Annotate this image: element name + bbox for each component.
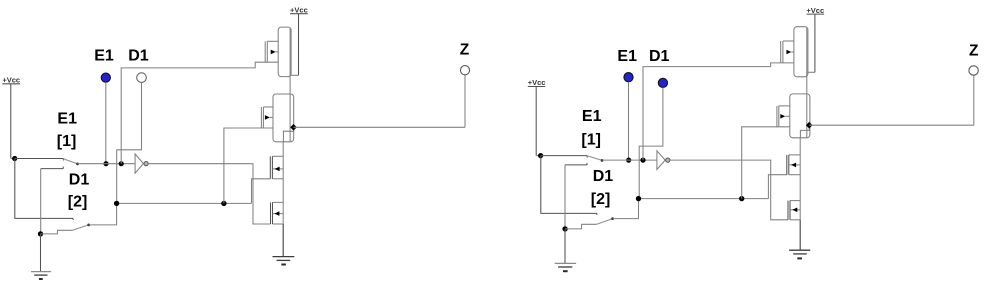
switch D1 [2] blade (right) — [597, 219, 613, 225]
wire loop from row up and over to T1 gate (right) — [643, 63, 794, 160]
switch D1 [2] pivot lead polyline — [41, 230, 73, 234]
wire switch D1 right contact to D1 net — [89, 203, 117, 225]
input probe E1 (blue) — [101, 73, 110, 82]
wire probe D1 down with jog to D1 row (right) — [639, 88, 663, 199]
transistor T8 (lower pair bottom, right) — [790, 200, 800, 202]
transistor T1 gate bars — [264, 41, 266, 62]
switch E1 [1] unused lower throw stub — [41, 168, 64, 170]
input probe E1 (blue, right) — [624, 73, 633, 82]
svg-text:E1: E1 — [57, 111, 77, 128]
wire inverter output to gate bus (right) — [670, 160, 788, 220]
transistor T4 source/bulk lead with arrow — [273, 213, 284, 215]
transistor T8 source/bulk lead with arrow — [790, 209, 800, 211]
wire D1 row (switch contact to bus) — [117, 202, 252, 204]
node Vcc-rail junction dot (right) — [538, 153, 543, 158]
wire inverter output to gate bus — [148, 164, 270, 224]
transistor T7 (lower pair top, right) — [789, 154, 800, 156]
wire +Vcc tee into T1 — [290, 74, 298, 76]
svg-text:[1]: [1] — [57, 133, 77, 150]
svg-text:D1: D1 — [593, 168, 614, 185]
wire +Vcc tee into T5 — [807, 71, 815, 73]
transistor T5 bulk arrow — [786, 50, 791, 55]
wire output row to Z terminal — [294, 126, 466, 128]
node D1 row left junction dot (right) — [636, 196, 641, 201]
transistor T1 bulk arrow — [271, 50, 276, 55]
node output junction diamond (right) — [806, 122, 813, 129]
transistor T1 drain stub — [267, 40, 278, 42]
svg-text:+Vcc: +Vcc — [528, 78, 546, 87]
wire E1 row (switch to inverter input) — [78, 163, 136, 165]
svg-text:+Vcc: +Vcc — [2, 75, 20, 84]
node D1 row right junction dot (right) — [739, 196, 744, 201]
transistor T6 source pin step box — [800, 130, 806, 137]
node ground-side junction dot (right) — [562, 226, 567, 231]
transistor T5 (top, body box, right) — [794, 27, 808, 77]
wire E1 row switch to inverter (right) — [602, 159, 657, 161]
node D1 row right junction dot — [221, 201, 226, 206]
svg-text:[2]: [2] — [68, 194, 88, 211]
svg-text:D1: D1 — [128, 48, 149, 65]
left circuit: tri-state buffer cell — [0, 0, 1, 1]
ground symbol (below transistor stack, left circuit) — [282, 224, 284, 257]
transistor T6 bulk arrow — [780, 114, 785, 119]
inverter U1 — [135, 154, 143, 173]
svg-text:+Vcc: +Vcc — [290, 5, 308, 14]
transistor T6 (middle, body box, right) — [790, 94, 810, 138]
switch D1 [2] pivot lead polyline (right) — [565, 224, 597, 229]
svg-text:+Vcc: +Vcc — [806, 6, 824, 15]
wire probe E1 down to row — [105, 82, 107, 164]
transistor T2 gate bars — [260, 107, 262, 128]
node output junction diamond — [290, 124, 297, 131]
svg-text:[1]: [1] — [581, 131, 601, 148]
node T1-gate-loop junction dot (right) — [640, 158, 645, 163]
transistor T5 gate bars — [780, 41, 782, 63]
transistor T2 source pin step box — [283, 131, 290, 142]
ground symbol (switch side, left circuit) — [40, 234, 42, 272]
switch E1 [1] left contact (right) — [541, 155, 587, 157]
wire D1 row (right) — [639, 198, 769, 200]
wire T2 source down through T3 T4 to ground — [282, 142, 284, 257]
node D1 row left junction dot — [114, 201, 119, 206]
transistor T2 (middle, body box) — [273, 94, 294, 142]
output terminal Z (right circuit) — [969, 66, 978, 75]
svg-text:D1: D1 — [69, 171, 90, 188]
switch E1 [1] left contact from rail — [15, 158, 64, 160]
svg-text:Z: Z — [460, 42, 470, 59]
wire D1 branch up to T3 gate (right) — [768, 175, 787, 199]
wire output row to Z terminal (right) — [809, 124, 974, 126]
wire T6 drain jog to output node (right) — [807, 125, 809, 130]
wire probe D1 down with jog to D1 row — [117, 82, 142, 203]
wire T5 channel down through T6 — [806, 27, 808, 130]
svg-text:D1: D1 — [649, 48, 670, 65]
wire bracket from lower throw down to ground node — [40, 169, 42, 234]
transistor T5 drain stub — [783, 40, 794, 42]
wire probe E1 down to row (right) — [628, 82, 630, 160]
node E1-row junction dot — [103, 161, 108, 166]
transistor T2 bulk arrow — [265, 115, 270, 120]
switch E1 [1] blade (right) — [587, 156, 602, 161]
node T1-gate-loop junction dot — [119, 161, 124, 166]
inverter U2 (right) — [657, 151, 665, 170]
wire +Vcc rail down to switch D1 row — [15, 159, 74, 221]
svg-text:E1: E1 — [94, 48, 114, 65]
wire T1 channel down through T2 — [289, 28, 291, 132]
input probe D1 (white/off) — [137, 73, 147, 83]
transistor T6 drain stub — [779, 105, 790, 107]
transistor T3 source/bulk lead with arrow — [272, 168, 283, 170]
svg-text:E1: E1 — [617, 48, 637, 65]
ground symbol (switch side, right circuit) — [564, 229, 566, 264]
transistor T2 drain stub — [263, 106, 273, 108]
svg-text:[2]: [2] — [591, 191, 611, 208]
node Vcc-rail junction dot — [12, 156, 17, 161]
svg-text:Z: Z — [969, 42, 979, 59]
wire from D1 row up to T2 gate (right) — [742, 127, 790, 199]
switch D1 [2] blade (open, to right contact) — [73, 225, 89, 230]
transistor T6 gate bars — [776, 106, 778, 127]
wire switch D1 right contact to D1 net (right) — [613, 199, 639, 219]
transistor T1 (top, body box) — [278, 27, 291, 77]
svg-text:E1: E1 — [582, 108, 602, 125]
transistor T4 (lower pair bottom) — [273, 201, 284, 203]
input probe D1 (blue, right) — [658, 78, 667, 87]
wire loop from row up and over to T1 gate — [121, 62, 278, 164]
transistor T7 source/bulk lead with arrow — [789, 164, 800, 166]
switch E1 [1] unused lower throw stub (right) — [565, 164, 587, 166]
wire T6 source down through T7 T8 to ground (right) — [799, 138, 801, 250]
wire +Vcc rail down to switch D1 row (right) — [541, 156, 597, 215]
wire D1 branch up to T3 gate — [252, 179, 271, 204]
wire +Vcc rail jog to junction — [11, 158, 15, 160]
output terminal Z (left circuit) — [460, 66, 469, 75]
transistor T3 (lower pair top) — [272, 155, 283, 157]
wire T2 drain jog to output node — [290, 127, 293, 131]
switch E1 [1] blade (closed to row) — [63, 159, 77, 164]
node E1-row junction dot (right) — [626, 158, 631, 163]
wire from D1 row up to T2 gate — [224, 128, 273, 203]
node ground-side junction dot of switches — [38, 231, 43, 236]
ground symbol (below transistor stack, right circuit) — [799, 220, 801, 250]
wire +Vcc rail jog to junction (right) — [536, 155, 540, 157]
wire bracket lower throw to ground node (right) — [564, 165, 566, 229]
